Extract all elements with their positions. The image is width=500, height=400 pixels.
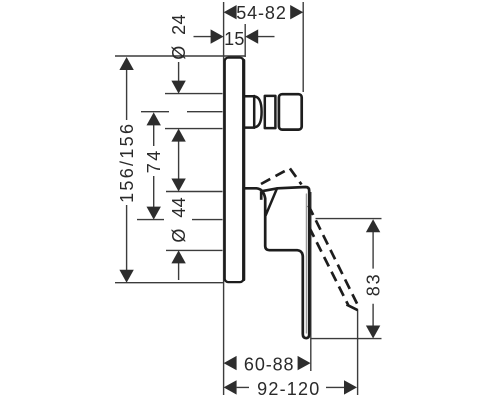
svg-text:15: 15 <box>224 29 245 49</box>
svg-text:60-88: 60-88 <box>244 355 295 375</box>
svg-text:83: 83 <box>364 273 384 297</box>
svg-text:74: 74 <box>144 148 164 173</box>
svg-text:Ø 44: Ø 44 <box>169 197 189 243</box>
svg-text:92-120: 92-120 <box>257 379 320 399</box>
svg-text:54-82: 54-82 <box>236 3 287 23</box>
svg-text:Ø 24: Ø 24 <box>169 14 189 60</box>
svg-text:156/156: 156/156 <box>117 122 137 203</box>
